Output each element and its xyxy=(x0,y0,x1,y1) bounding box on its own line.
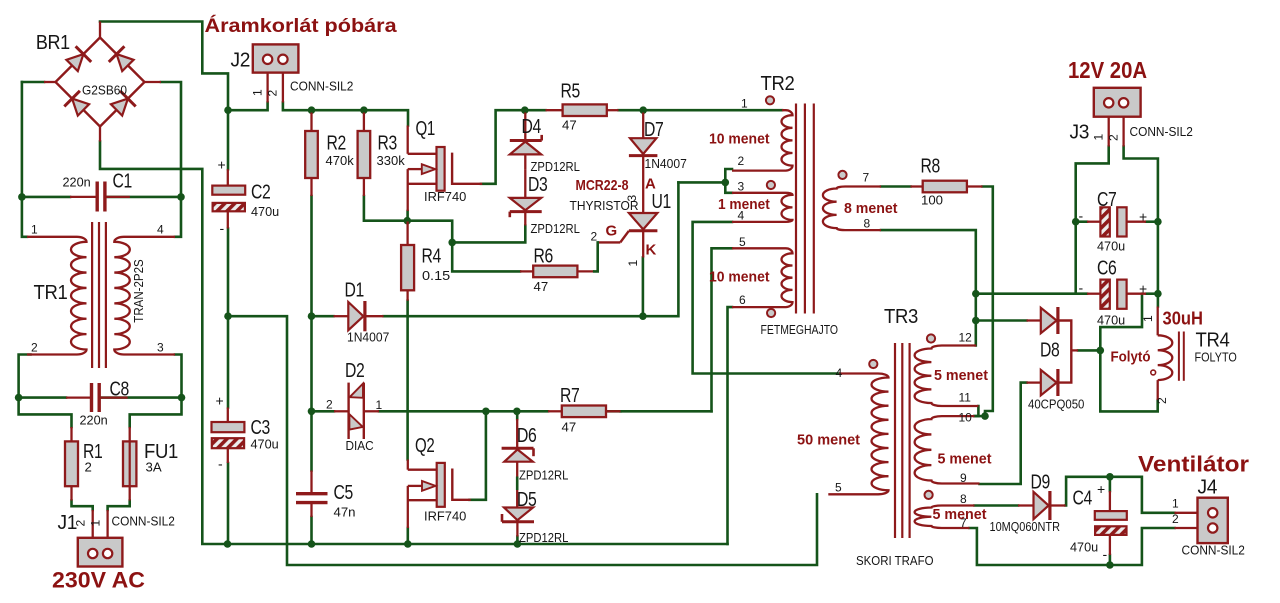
wire C8 left xyxy=(19,396,66,399)
resistor R2 xyxy=(305,131,318,178)
svg-text:10: 10 xyxy=(959,411,973,425)
svg-text:2: 2 xyxy=(74,520,88,527)
wire Q1 gate to R5 left / D4 xyxy=(481,110,546,184)
svg-text:+: + xyxy=(216,393,224,409)
node C1 left xyxy=(18,193,26,201)
transformer TR2 winding 5-6 xyxy=(732,248,793,307)
wire TR3 pin7 to C4- and J4 pin2 xyxy=(970,528,1175,565)
pin D2 1 xyxy=(364,410,379,412)
diode D1 1N4007 xyxy=(348,302,363,330)
pin R1 top xyxy=(70,427,72,441)
pin J2-2 xyxy=(282,73,284,103)
pin C4 - xyxy=(1109,535,1111,555)
pin TR4 2 xyxy=(1157,380,1159,400)
transformer TR3 winding 10-9 xyxy=(915,416,980,483)
svg-text:C4: C4 xyxy=(1073,488,1093,510)
svg-text:K: K xyxy=(646,242,657,259)
capacitor C4 electrolytic xyxy=(1095,511,1127,520)
pin C5 top xyxy=(310,471,312,494)
svg-text:G: G xyxy=(606,223,618,240)
pin R8 left xyxy=(911,185,923,187)
svg-text:R5: R5 xyxy=(561,81,581,103)
pin FU1 top xyxy=(129,427,131,441)
node Folyto xyxy=(1097,347,1105,355)
pin D2 2 xyxy=(334,410,349,412)
svg-text:10MQ060NTR: 10MQ060NTR xyxy=(990,519,1061,534)
wire R7 right lead xyxy=(606,410,621,413)
node C1 right xyxy=(177,193,185,201)
pin R7 right lead xyxy=(606,410,621,412)
wire bridge left down to TR1 pin1 xyxy=(22,82,27,237)
wire TR1 pin2 to R1 xyxy=(19,355,72,428)
svg-text:47: 47 xyxy=(562,420,577,435)
pin D8 anode1 xyxy=(1027,319,1041,321)
pin D7 anode xyxy=(642,113,644,139)
wire Q2 gate bracket xyxy=(452,470,469,500)
svg-text:220n: 220n xyxy=(63,175,91,190)
svg-text:2: 2 xyxy=(1155,397,1169,404)
pin J4-1 xyxy=(1175,512,1198,514)
svg-text:R7: R7 xyxy=(560,385,580,407)
node bus1 / D5 xyxy=(514,540,522,548)
svg-text:+: + xyxy=(218,157,226,173)
capacitor C1 xyxy=(95,182,98,212)
zener diode D3 xyxy=(510,198,541,210)
svg-text:470u: 470u xyxy=(251,437,279,452)
connector J4 xyxy=(1198,498,1228,543)
pin D8 cathode out xyxy=(1071,349,1078,351)
pin C4 + xyxy=(1109,491,1111,511)
svg-text:SKORI TRAFO: SKORI TRAFO xyxy=(856,553,934,568)
zener diode D4 xyxy=(510,139,542,142)
wire R1 to J1 pin1 xyxy=(72,501,93,511)
svg-text:J4: J4 xyxy=(1198,477,1218,499)
wire C7 plus lead xyxy=(1146,220,1158,223)
node R2 top xyxy=(308,106,316,114)
pin C1 left xyxy=(70,196,97,198)
wire source node to R6 xyxy=(407,221,520,272)
node C7 minus xyxy=(1072,218,1080,226)
svg-text:C7: C7 xyxy=(1097,189,1117,211)
transformer TR3 core xyxy=(894,343,896,538)
transformer TR3 primary winding 4-5 xyxy=(828,374,888,495)
pin U1 cathode xyxy=(642,231,644,258)
node C4 minus xyxy=(1106,561,1114,569)
pin Q1 source xyxy=(407,169,409,211)
svg-text:J3: J3 xyxy=(1070,122,1090,144)
svg-text:6: 6 xyxy=(739,293,746,307)
diode D8 lower half xyxy=(1041,370,1057,395)
svg-text:TR3: TR3 xyxy=(884,306,918,328)
node C8 right xyxy=(178,394,186,402)
wire Q1 body arrow xyxy=(408,168,422,170)
pin D7 cathode to U1 anode xyxy=(642,156,644,213)
svg-text:-: - xyxy=(218,456,223,472)
svg-text:TR2: TR2 xyxy=(761,73,795,95)
wire TR1 pin3 to FU1 xyxy=(130,355,182,428)
transformer TR2 winding 1-2 xyxy=(732,110,793,170)
svg-text:C1: C1 xyxy=(113,171,133,193)
svg-text:FOLYTO: FOLYTO xyxy=(1195,350,1237,365)
wire D2 pin2 xyxy=(312,410,335,413)
node D8 upper anode xyxy=(972,317,980,325)
svg-text:CONN-SIL2: CONN-SIL2 xyxy=(1182,543,1245,558)
wire FU1 to J1 pin2 xyxy=(108,501,130,511)
svg-text:1: 1 xyxy=(376,398,383,412)
svg-text:D8: D8 xyxy=(1040,340,1060,362)
svg-text:2: 2 xyxy=(266,90,280,97)
capacitor C2 electrolytic xyxy=(212,186,245,195)
wire zener D3 to source node xyxy=(452,226,525,243)
wire C6 minus row xyxy=(976,292,1087,295)
svg-text:30uH: 30uH xyxy=(1163,309,1204,329)
svg-text:470u: 470u xyxy=(1097,239,1125,254)
svg-text:D2: D2 xyxy=(345,360,365,382)
capacitor C7 electrolytic xyxy=(1100,207,1109,236)
pin D4 cathode xyxy=(524,113,526,141)
svg-text:ZPD12RL: ZPD12RL xyxy=(519,468,568,483)
svg-text:2: 2 xyxy=(326,398,333,412)
pin Q1 drain xyxy=(407,126,409,154)
pin D1 cathode xyxy=(365,315,384,317)
wire C2- to C3+ via D1 tap xyxy=(227,229,230,408)
wire TR2 pin8 down to TR3 pin12 xyxy=(881,230,976,345)
pin R6 left xyxy=(520,270,533,272)
svg-text:Q1: Q1 xyxy=(416,118,436,140)
wire D8 lower anode to TR3 pin9 xyxy=(980,383,1027,484)
svg-text:47: 47 xyxy=(562,118,577,133)
node C7 plus xyxy=(1154,218,1162,226)
svg-text:TR1: TR1 xyxy=(34,282,68,304)
wire R8 right down to TR3 pin10/11 xyxy=(983,187,993,417)
node gate / R5 / D4 xyxy=(521,106,529,114)
wire R3 bottom to source node xyxy=(364,196,407,221)
pin R5 left xyxy=(546,109,563,111)
node D2 pin2 / R2 rail xyxy=(308,408,316,416)
wire TR2 pin7 to R8 xyxy=(881,185,911,188)
svg-text:R2: R2 xyxy=(327,133,347,155)
dual diode D8 40CPQ050 xyxy=(1041,308,1057,333)
wire U1 cathode down xyxy=(642,258,645,317)
svg-text:5: 5 xyxy=(835,481,842,495)
svg-text:D6: D6 xyxy=(517,425,537,447)
wire bridge AC right down to TR1 pin4 xyxy=(161,82,181,237)
bridge diode bottom-left xyxy=(72,99,89,116)
svg-text:470u: 470u xyxy=(1097,313,1125,328)
fuse FU1 element xyxy=(129,441,131,486)
svg-text:CONN-SIL2: CONN-SIL2 xyxy=(1130,124,1193,139)
inductor TR4 core xyxy=(1178,332,1180,381)
pin TR4 1 xyxy=(1157,307,1159,336)
resistor R6 xyxy=(533,266,577,278)
svg-text:FETMEGHAJTO: FETMEGHAJTO xyxy=(761,322,839,337)
svg-text:D3: D3 xyxy=(528,174,548,196)
connector J2 xyxy=(253,44,299,72)
svg-text:4: 4 xyxy=(157,223,164,237)
pin BR1 AC2 xyxy=(145,81,162,83)
node TR3 pin10/11 / R8 xyxy=(981,412,989,420)
svg-text:J2: J2 xyxy=(231,50,251,72)
pin Q2 drain xyxy=(407,460,409,470)
polarity mark TR2 pin1 xyxy=(766,96,774,104)
pin R2 bottom xyxy=(310,178,312,196)
wire D2 pin1 to junction xyxy=(379,410,486,413)
transformer TR3 winding 8-7 xyxy=(915,506,975,529)
diode D9 10MQ060NTR xyxy=(1034,492,1049,519)
wire to pin2/3 junction xyxy=(678,181,725,184)
svg-text:D9: D9 xyxy=(1031,472,1051,494)
pin Q2 source xyxy=(407,486,409,528)
pin C8 left xyxy=(66,396,92,398)
wire Q1 gate bracket xyxy=(452,154,481,184)
bridge diode top-right xyxy=(117,54,134,71)
pin R2 top xyxy=(310,113,312,132)
svg-text:-: - xyxy=(1079,280,1084,296)
pin BR1 AC1 xyxy=(44,81,56,83)
transformer TR1 core xyxy=(91,222,93,368)
wire Q2 source to bus1 xyxy=(406,528,409,544)
node R7 row / Q2 gate xyxy=(482,408,490,416)
node C6 plus / TR4 pin1 xyxy=(1154,290,1162,298)
wire Q1 source to node xyxy=(406,211,409,221)
svg-text:1: 1 xyxy=(626,260,640,267)
wire D6 to D5 xyxy=(516,477,519,491)
pin BR1 + xyxy=(99,22,101,38)
node Q1 source / R3 / R4 xyxy=(404,217,412,225)
svg-text:MCR22-8: MCR22-8 xyxy=(576,177,629,194)
svg-text:3: 3 xyxy=(738,180,745,194)
svg-text:4: 4 xyxy=(836,366,843,380)
transformer TR3 winding 12-11 xyxy=(915,346,979,407)
pin C8 right xyxy=(99,396,127,398)
svg-text:11: 11 xyxy=(959,391,972,405)
wire Folyto node to TR4 pin2 xyxy=(1100,350,1157,411)
svg-text:1: 1 xyxy=(1172,497,1179,511)
svg-text:5 menet: 5 menet xyxy=(933,507,987,523)
pin R4 top xyxy=(406,222,408,246)
svg-text:3: 3 xyxy=(157,341,164,355)
polarity mark TR3 pin10 xyxy=(925,491,933,499)
wire TR2 pin2-pin3 tie xyxy=(725,169,732,193)
transformer TR1 left winding xyxy=(27,237,87,355)
wire U1 gate to R6 xyxy=(594,242,598,271)
thyristor U1 xyxy=(629,213,658,229)
svg-text:R4: R4 xyxy=(422,246,442,268)
pin C5 bottom xyxy=(310,503,312,517)
transistor Q2 IRF740 xyxy=(437,463,445,507)
svg-text:5 menet: 5 menet xyxy=(934,368,988,384)
wire to R7 left xyxy=(486,410,548,413)
svg-text:CONN-SIL2: CONN-SIL2 xyxy=(112,514,175,529)
zener diode D5 xyxy=(504,508,533,521)
pin D9 anode xyxy=(1018,504,1034,506)
pin D3 anode xyxy=(524,170,526,198)
node C4 plus xyxy=(1106,473,1114,481)
polarity mark TR2 pin6 xyxy=(767,309,775,317)
svg-text:2: 2 xyxy=(85,460,92,475)
svg-text:IRF740: IRF740 xyxy=(424,509,466,524)
node R5 right / D7 / TR2 pin1 xyxy=(639,106,647,114)
node bus1 / C5 xyxy=(308,540,316,548)
pin D3 cathode xyxy=(524,212,526,226)
wire R4 to Q2 drain xyxy=(406,301,409,460)
svg-text:2: 2 xyxy=(31,341,38,355)
polarity mark TR2 pin7 xyxy=(838,171,846,179)
node C8 left xyxy=(15,394,23,402)
wire bridge AC left xyxy=(22,81,44,84)
wire C5 to bus1 xyxy=(310,517,313,544)
svg-text:G2SB60: G2SB60 xyxy=(82,83,127,98)
svg-text:C6: C6 xyxy=(1097,258,1117,280)
svg-text:10 menet: 10 menet xyxy=(709,132,770,148)
svg-text:47n: 47n xyxy=(334,505,356,520)
bridge diode bottom-right xyxy=(111,99,128,116)
capacitor C3 electrolytic xyxy=(212,422,245,432)
svg-text:R6: R6 xyxy=(534,246,554,268)
pin U1 gate diagonal xyxy=(620,231,629,243)
bridge diode top-left xyxy=(66,54,83,71)
wire D8 out to Folyto node xyxy=(1078,349,1100,352)
svg-text:5 menet: 5 menet xyxy=(938,452,992,468)
svg-text:9: 9 xyxy=(960,471,967,485)
svg-text:2: 2 xyxy=(1107,134,1121,141)
svg-text:Folytó: Folytó xyxy=(1111,349,1151,366)
node neg rail tap xyxy=(224,312,232,320)
svg-text:D7: D7 xyxy=(644,119,664,141)
wire neg rail to bus2 to TR3 pin5 xyxy=(228,316,817,565)
wire TR2 pin5 down to R7 row xyxy=(712,248,733,411)
svg-text:8 menet: 8 menet xyxy=(844,201,898,217)
svg-text:1 menet: 1 menet xyxy=(718,197,770,213)
svg-text:8: 8 xyxy=(864,217,871,231)
wire D1 anode xyxy=(312,315,334,318)
wire gate drop to Q2 xyxy=(470,411,486,500)
pin C6 + xyxy=(1127,293,1146,295)
wire D8 upper anode xyxy=(976,319,1027,322)
pin R7 left xyxy=(548,410,562,412)
svg-text:10 menet: 10 menet xyxy=(709,270,770,286)
transformer TR2 winding 3-4 xyxy=(732,193,793,222)
wire C1 right xyxy=(105,196,181,199)
svg-text:0.15: 0.15 xyxy=(422,268,450,283)
connector J1 xyxy=(78,538,123,567)
pin C7 - xyxy=(1087,221,1100,223)
pin BR1 - xyxy=(99,127,101,142)
svg-text:+: + xyxy=(1139,281,1147,297)
pin C3 + xyxy=(227,408,229,423)
resistor R4 xyxy=(401,245,414,290)
svg-text:230V AC: 230V AC xyxy=(52,568,145,593)
svg-text:40CPQ050: 40CPQ050 xyxy=(1028,397,1084,412)
svg-text:470u: 470u xyxy=(1070,540,1098,555)
wire J2 pin2 to R2 R3 Q1 drain xyxy=(283,103,408,126)
resistor R7 xyxy=(562,406,606,418)
svg-text:ZPD12RL: ZPD12RL xyxy=(519,530,568,545)
wire Q2 body arrow xyxy=(408,485,422,487)
transformer TR2 core xyxy=(795,104,797,314)
polarity mark TR4 xyxy=(1151,370,1156,375)
svg-text:C2: C2 xyxy=(251,182,271,204)
svg-text:50 menet: 50 menet xyxy=(797,433,860,449)
pin C2 + xyxy=(227,169,229,185)
pin C2 - xyxy=(227,211,229,228)
svg-text:D5: D5 xyxy=(517,489,537,511)
svg-text:2: 2 xyxy=(738,154,745,168)
svg-text:1: 1 xyxy=(31,223,38,237)
svg-text:1: 1 xyxy=(89,520,103,527)
capacitor C5 xyxy=(296,492,328,495)
node bus1 / C3 xyxy=(224,540,232,548)
wire C4 minus to bus xyxy=(1109,555,1112,565)
wire TR3 pin8 to D9 xyxy=(975,504,1019,507)
svg-text:5: 5 xyxy=(739,235,746,249)
capacitor C8 xyxy=(90,383,93,412)
node TR2 pin8 / C6- rail xyxy=(972,290,980,298)
pin C1 right xyxy=(105,196,130,198)
svg-text:3: 3 xyxy=(625,195,639,202)
wire C6 plus lead xyxy=(1146,292,1158,295)
pin R5 right xyxy=(607,109,619,111)
svg-text:A: A xyxy=(645,176,656,193)
pin D8 anode2 xyxy=(1027,381,1041,383)
diac D2 xyxy=(347,383,349,439)
wire to J2 pin 1 xyxy=(228,103,268,111)
connector J3 xyxy=(1094,88,1141,117)
svg-text:220n: 220n xyxy=(80,413,108,428)
pin R3 top xyxy=(363,113,365,132)
svg-text:Áramkorlát póbára: Áramkorlát póbára xyxy=(205,15,398,37)
capacitor C6 electrolytic xyxy=(1100,280,1109,309)
wire D9 out to C4+ and J4 pin1 xyxy=(1066,477,1175,513)
fuse FU1 xyxy=(123,441,136,486)
svg-text:BR1: BR1 xyxy=(36,32,70,54)
pin FU1 bottom xyxy=(129,486,131,500)
wire D1 cathode to TR2 pins 2+3 xyxy=(384,182,679,316)
transistor Q1 IRF740 xyxy=(437,147,445,191)
wire J3 pin2 to C7+ C6+ TR4 xyxy=(1124,147,1158,307)
polarity mark TR3 pin4 xyxy=(869,360,877,368)
svg-text:1N4007: 1N4007 xyxy=(645,156,687,171)
pin J1-2 xyxy=(106,510,108,538)
pin J1-1 xyxy=(92,510,94,538)
svg-text:CONN-SIL2: CONN-SIL2 xyxy=(290,79,353,94)
wire R5 right to D7 and TR2 pin1 xyxy=(619,109,783,112)
svg-text:ZPD12RL: ZPD12RL xyxy=(531,221,580,236)
node U1 cathode / D1 row xyxy=(639,312,647,320)
svg-text:Q2: Q2 xyxy=(415,435,435,457)
svg-text:47: 47 xyxy=(534,279,549,294)
svg-text:8: 8 xyxy=(960,492,967,506)
pin C7 + xyxy=(1127,221,1146,223)
wire D8 cathode join xyxy=(1058,321,1071,383)
polarity mark TR2 pin3 xyxy=(767,181,775,189)
pin D5 anode xyxy=(516,490,518,508)
pin D4 anode xyxy=(524,154,526,169)
svg-text:1N4007: 1N4007 xyxy=(347,330,389,345)
svg-text:+: + xyxy=(1139,209,1147,225)
wire bridge+ to J2 pin1 / C2 node xyxy=(100,22,228,170)
node R3 top xyxy=(360,106,368,114)
wire TR3 pin11 to pin10 xyxy=(975,406,979,416)
svg-text:-: - xyxy=(1079,208,1084,224)
pin R1 bottom xyxy=(70,486,72,500)
svg-text:-: - xyxy=(1103,546,1108,562)
svg-text:TR4: TR4 xyxy=(1196,330,1230,352)
svg-text:470k: 470k xyxy=(326,153,355,168)
svg-text:3A: 3A xyxy=(146,460,162,475)
resistor R3 xyxy=(358,131,371,178)
pin R6 right xyxy=(577,270,594,272)
